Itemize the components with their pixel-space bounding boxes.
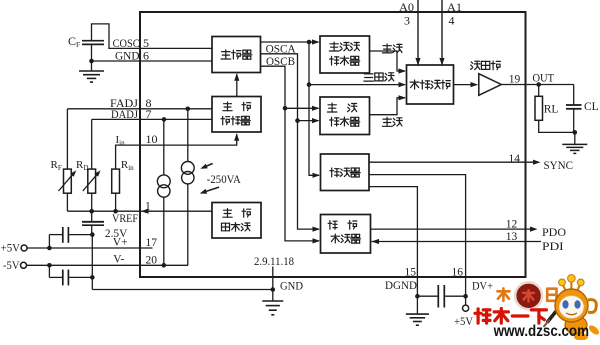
svg-text:PDI: PDI — [542, 241, 564, 253]
PDO label — [542, 227, 566, 239]
方波 label — [382, 117, 402, 126]
多路选择 text — [410, 80, 450, 89]
svg-text:V-: V- — [113, 254, 124, 266]
svg-text:19: 19 — [509, 74, 521, 86]
node junction ground rail — [271, 287, 276, 292]
svg-text:+5V: +5V — [1, 243, 21, 255]
capacitor -5V bypass — [49, 265, 92, 285]
pin 4 arrowhead into mux — [439, 58, 444, 66]
node junction RL/CL ground — [573, 130, 578, 135]
resistor Rin — [112, 169, 120, 193]
RL label — [544, 103, 559, 115]
检测器 text row — [331, 234, 361, 243]
三角波 label — [364, 73, 394, 81]
SYNC label — [544, 160, 574, 172]
-250VA annotation arrow a — [200, 164, 212, 169]
pin 10 number — [146, 132, 158, 146]
comparator input arrowhead — [313, 173, 321, 178]
svg-text:12: 12 — [506, 218, 518, 230]
OUT label — [533, 72, 555, 84]
pin 14 number — [509, 153, 521, 165]
wire OSCA column down — [308, 42, 310, 85]
wire DV+ to +5V terminal — [465, 296, 467, 305]
OSCB label — [266, 56, 295, 68]
node junction DADJ/current-source — [162, 117, 167, 122]
pin 3 arrowhead into mux — [415, 58, 420, 66]
GND net label — [280, 281, 303, 293]
wire RL bottom — [539, 120, 575, 132]
node A1 label — [447, 2, 462, 14]
wire VREF rail pin 1 — [67, 210, 212, 212]
node junction DV+/cap — [463, 294, 468, 299]
triangle arrowhead into mux — [399, 82, 407, 87]
wire A0 (pin 3) vertical — [417, 0, 419, 66]
pin 20 number — [146, 254, 158, 266]
node OUT — [536, 82, 541, 87]
wire ground column — [91, 235, 93, 290]
pin 8 number — [146, 96, 152, 110]
svg-text:A1: A1 — [447, 2, 462, 14]
pin 3 number — [404, 14, 410, 28]
svg-text:3: 3 — [404, 14, 410, 28]
block multiplexer 多路选择 — [407, 65, 454, 104]
pin 1 arrowhead — [141, 209, 149, 214]
CF label — [68, 34, 80, 49]
square out arrowhead into mux — [399, 95, 407, 100]
capacitor CF — [82, 41, 104, 45]
pin 4 number — [449, 14, 455, 28]
svg-text:6: 6 — [143, 49, 149, 63]
node junction cap/gnd-column-b — [90, 275, 95, 280]
arrowhead into oscillator — [234, 73, 239, 81]
resistor RD (variable) — [83, 169, 101, 193]
phase det input b arrowhead — [313, 238, 321, 243]
wire Rin bottom to VREF rail — [115, 193, 117, 211]
svg-text:DADJ: DADJ — [111, 109, 138, 121]
wire PDI — [372, 241, 542, 243]
wire FADJ current source column — [187, 109, 189, 162]
resistor RL — [535, 96, 543, 120]
node junction triangle tap — [307, 82, 312, 87]
wire FADJ pin 8 — [67, 108, 212, 110]
wire third output to phase detector — [285, 108, 319, 241]
wire RD bottom to VREF rail — [91, 193, 93, 211]
svg-text:PDO: PDO — [542, 227, 566, 239]
wire DADJ current source column — [163, 119, 165, 175]
wire oscillator third output — [261, 66, 286, 108]
pin 1 number — [145, 201, 151, 213]
svg-text:SYNC: SYNC — [544, 160, 574, 172]
OSCA arrowhead into sine former — [312, 39, 320, 44]
wire comparator to DGND column — [369, 187, 417, 297]
pin 17 number — [146, 237, 158, 249]
wire square input b — [298, 120, 319, 122]
node junction OSCA column — [307, 40, 312, 45]
node junction Rin/rail — [113, 209, 118, 214]
wire OSCB — [261, 54, 298, 121]
wire RF bottom to VREF rail — [66, 193, 68, 211]
svg-text:A0: A0 — [399, 2, 414, 14]
wire PDO — [371, 228, 532, 230]
CL label — [584, 101, 599, 113]
wire V+ pin 17 — [27, 247, 152, 249]
Rin label — [121, 159, 134, 172]
wire triangle to mux — [309, 84, 405, 86]
DADJ label — [111, 109, 138, 121]
pin 16 number — [452, 266, 464, 278]
svg-text:7: 7 — [146, 107, 152, 121]
+5V label — [1, 243, 21, 255]
-250VA annotation arrow b — [200, 187, 219, 194]
wire OSCB to phase detector — [298, 121, 320, 230]
2.5V label — [105, 228, 128, 240]
svg-text:CL: CL — [584, 101, 599, 113]
pin 7 number — [146, 107, 152, 121]
pin 12 number — [506, 218, 518, 230]
svg-text:VREF: VREF — [112, 213, 138, 225]
capacitor +5V bypass — [49, 227, 92, 248]
op-amp output stage — [479, 74, 502, 96]
wire square former to mux — [370, 98, 406, 115]
pins 2.9.11.18 label — [254, 256, 294, 268]
block oscillator controller 主振控制器 — [212, 97, 261, 133]
wire Iin pin 10 — [116, 134, 237, 169]
wire DADJ to RD — [91, 119, 93, 169]
svg-text:www.dzsc.com: www.dzsc.com — [493, 323, 589, 340]
svg-text:GND: GND — [115, 50, 140, 62]
pin 19 number — [509, 74, 521, 86]
svg-text:20: 20 — [146, 254, 158, 266]
node junction +5V bypass — [47, 246, 52, 251]
block square former 方波形成器 — [320, 97, 370, 135]
COSC label — [113, 38, 140, 50]
wire OSCA — [261, 41, 319, 43]
block main oscillator 主振器 — [212, 37, 261, 73]
wire DADJ pin 7 — [92, 118, 212, 120]
正弦 label — [382, 44, 402, 53]
block phase detector 相位检测器 — [321, 215, 371, 254]
形成器 text row — [330, 56, 360, 65]
wire square input a — [285, 107, 319, 109]
node junction RD/VREF-cap — [89, 209, 94, 214]
resistor RF (variable) — [59, 169, 77, 193]
wire V- pin 20 — [27, 264, 189, 266]
terminal +5V digital — [463, 305, 469, 311]
capacitor VREF bypass — [82, 211, 104, 234]
wire FADJ to RF — [66, 109, 68, 169]
pin 6 number — [143, 49, 149, 63]
wire OUT down to RL — [538, 85, 540, 97]
DGND label — [385, 280, 417, 292]
wire Ia to V- — [163, 197, 165, 265]
svg-text:15: 15 — [405, 266, 417, 278]
控制器 text row — [221, 116, 250, 125]
SYNC arrowhead — [533, 160, 541, 165]
Iin label — [116, 134, 126, 147]
pin 5 number — [143, 36, 149, 50]
square input a arrowhead — [312, 106, 320, 111]
wire pins 2.9.11.18 stub — [272, 267, 274, 290]
wire OSCA column to comparator — [309, 85, 319, 176]
svg-text:17: 17 — [146, 237, 158, 249]
wire ground rail — [92, 289, 272, 291]
wire Ib to V- — [187, 184, 189, 265]
terminal +5V — [21, 245, 27, 251]
DV+ label — [472, 281, 493, 293]
block comparator 比较器 — [321, 154, 370, 191]
pin 13 number — [506, 231, 518, 243]
FADJ label — [110, 98, 139, 110]
svg-text:1: 1 — [145, 201, 151, 213]
node junction square input b — [295, 118, 300, 123]
wire A1 (pin 4) vertical — [441, 0, 443, 66]
svg-text:14: 14 — [509, 153, 521, 165]
svg-text:COSC: COSC — [113, 38, 140, 50]
node junction FADJ/current-source — [186, 107, 191, 112]
PDI label — [542, 241, 564, 253]
ground symbol DGND — [406, 296, 429, 325]
node junction Ia/V- — [162, 263, 167, 268]
wire CF bottom — [91, 44, 93, 61]
svg-text:4: 4 — [449, 14, 455, 28]
svg-text:GND: GND — [280, 281, 303, 293]
svg-text:DGND: DGND — [385, 280, 417, 292]
node junction -5V bypass — [47, 263, 52, 268]
PDI arrowhead into phase det — [372, 239, 380, 244]
ground symbol at CL — [562, 132, 587, 153]
RF label — [51, 159, 62, 172]
sine out arrowhead into mux — [399, 68, 407, 73]
VREF label — [112, 213, 138, 225]
wire SYNC — [369, 161, 535, 163]
-5V label — [3, 260, 20, 272]
基 准 text row — [223, 209, 251, 218]
terminal -5V — [21, 262, 27, 268]
-250VA label — [207, 174, 242, 186]
svg-text:-5V: -5V — [3, 260, 20, 272]
node A0 label — [399, 2, 414, 14]
比较器 text — [330, 168, 360, 177]
IC U1 (function generator) outline — [140, 12, 526, 277]
current source Ia — [157, 175, 170, 197]
node junction square input a — [283, 106, 288, 111]
svg-text:10: 10 — [146, 132, 158, 146]
PDO arrowhead — [530, 227, 538, 232]
wire comparator to DV+ column — [369, 175, 466, 297]
V- label — [113, 254, 124, 266]
svg-text:-250VA: -250VA — [207, 174, 242, 186]
node junction cap/gnd-column-a — [90, 232, 95, 237]
wire sine former to mux — [370, 51, 406, 71]
square input b arrowhead — [312, 118, 320, 123]
capacitor CL — [566, 85, 582, 133]
wire mux to amp — [454, 84, 478, 86]
ground symbol under CF — [79, 61, 104, 82]
svg-text:16: 16 — [452, 266, 464, 278]
block reference source 基准电压源 — [212, 203, 261, 239]
wire amp to OUT — [501, 84, 573, 86]
phase det input a arrowhead — [313, 227, 321, 232]
block sine former 正弦波形成器 — [320, 36, 370, 73]
pin 10 arrowhead into controller — [234, 133, 239, 141]
amp input arrowhead — [471, 82, 479, 87]
node junction DGND/cap — [415, 294, 420, 299]
svg-text:V+: V+ — [113, 236, 128, 248]
svg-text:13: 13 — [506, 231, 518, 243]
GND label — [115, 50, 140, 62]
svg-text:RL: RL — [544, 103, 559, 115]
方 波 text row — [327, 103, 357, 112]
相 位 text row — [328, 221, 357, 230]
输出级 label — [471, 61, 501, 70]
主振器 text — [221, 50, 252, 59]
wire controller to oscillator — [236, 74, 238, 97]
电压源 text row — [222, 223, 251, 232]
svg-text:2.9.11.18: 2.9.11.18 — [254, 256, 294, 268]
主 振 text row — [223, 102, 251, 111]
pin 15 number — [405, 266, 417, 278]
capacitor digital supply bypass — [417, 285, 465, 308]
watermark logo dzsc.com — [475, 275, 600, 341]
ground symbol bottom center — [262, 290, 283, 315]
node junction CF-bottom/GND — [89, 59, 94, 64]
正弦波 text row — [329, 42, 359, 51]
wire GND pin 6 — [92, 60, 213, 62]
+5V digital label — [454, 316, 474, 328]
current source Ib — [181, 162, 194, 184]
形成器 text row b — [330, 117, 360, 126]
svg-text:DV+: DV+ — [472, 281, 493, 293]
svg-text:OUT: OUT — [533, 72, 555, 84]
RD label — [76, 159, 88, 172]
wire CF top to COSC pin — [92, 24, 213, 49]
V+ label — [113, 236, 128, 248]
OSCA label — [266, 44, 297, 56]
svg-text:+5V: +5V — [454, 316, 474, 328]
